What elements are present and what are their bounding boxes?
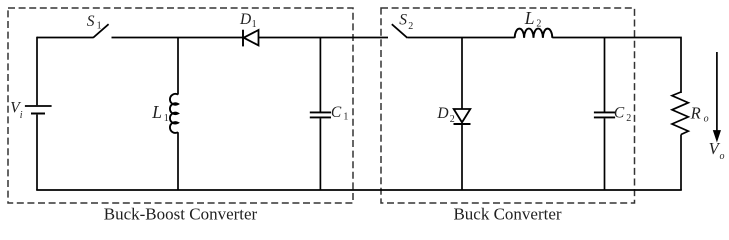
svg-text:S: S (399, 12, 407, 29)
capacitor C2 (594, 112, 615, 117)
wire D2 branch bottom (461, 124, 463, 190)
wire C2 branch bottom (604, 118, 606, 190)
svg-text:Buck-Boost Converter: Buck-Boost Converter (104, 205, 258, 224)
wire D1 to S2 (259, 37, 389, 39)
svg-text:L: L (151, 102, 162, 122)
svg-text:2: 2 (626, 113, 631, 124)
label Vo (709, 139, 725, 162)
svg-text:2: 2 (536, 19, 541, 30)
svg-text:2: 2 (408, 21, 413, 32)
wire C1 branch bottom (319, 118, 321, 190)
label D1 (239, 11, 257, 30)
wire S1 to D1 (112, 37, 244, 39)
switch S2 (392, 24, 408, 38)
arrow Vo (714, 52, 721, 141)
label L1 (151, 102, 169, 124)
label C2 (614, 105, 631, 125)
wire left rail top (36, 37, 38, 106)
svg-text:D: D (239, 11, 251, 28)
wire D2 branch top (461, 38, 463, 110)
wire L1 branch bottom (177, 132, 179, 190)
svg-text:i: i (20, 110, 23, 121)
resistor Ro (672, 92, 688, 135)
wire C1 branch top (319, 38, 321, 112)
svg-text:C: C (331, 104, 342, 121)
wire S2 to L2 (407, 37, 514, 39)
svg-text:R: R (690, 104, 701, 123)
wire C2 branch top (604, 38, 606, 112)
svg-text:1: 1 (97, 21, 102, 32)
inductor L2 (515, 29, 553, 38)
svg-text:1: 1 (164, 113, 169, 124)
dashed box Buck Converter (381, 8, 635, 203)
svg-text:C: C (614, 105, 625, 122)
battery Vi (25, 106, 52, 114)
diode D1 (243, 30, 259, 47)
svg-text:1: 1 (343, 112, 348, 123)
wire Ro bottom (680, 135, 682, 191)
label Vi (10, 99, 22, 121)
wire L1 branch top (177, 38, 179, 95)
wire L2 to right corner and down to Ro (552, 38, 681, 94)
diode D2 (454, 109, 471, 124)
svg-text:S: S (87, 13, 95, 30)
capacitor C1 (310, 112, 331, 117)
dashed box Buck-Boost Converter (8, 8, 353, 203)
svg-text:o: o (704, 114, 709, 125)
svg-text:D: D (436, 105, 448, 122)
svg-text:Buck Converter: Buck Converter (453, 205, 561, 224)
wire bottom rail (36, 189, 682, 191)
inductor L1 (170, 94, 178, 133)
wire top rail left (corner to S1) (37, 37, 93, 39)
label Ro (690, 104, 709, 125)
svg-text:2: 2 (450, 114, 455, 125)
label C1 (331, 104, 349, 123)
label L2 (524, 8, 542, 29)
svg-text:1: 1 (252, 19, 257, 30)
label S1 (87, 13, 102, 32)
svg-text:o: o (720, 151, 725, 162)
svg-text:L: L (524, 8, 535, 28)
switch S1 (93, 24, 109, 38)
wire left rail bottom (36, 115, 38, 190)
label S2 (399, 12, 413, 32)
label D2 (436, 105, 454, 125)
